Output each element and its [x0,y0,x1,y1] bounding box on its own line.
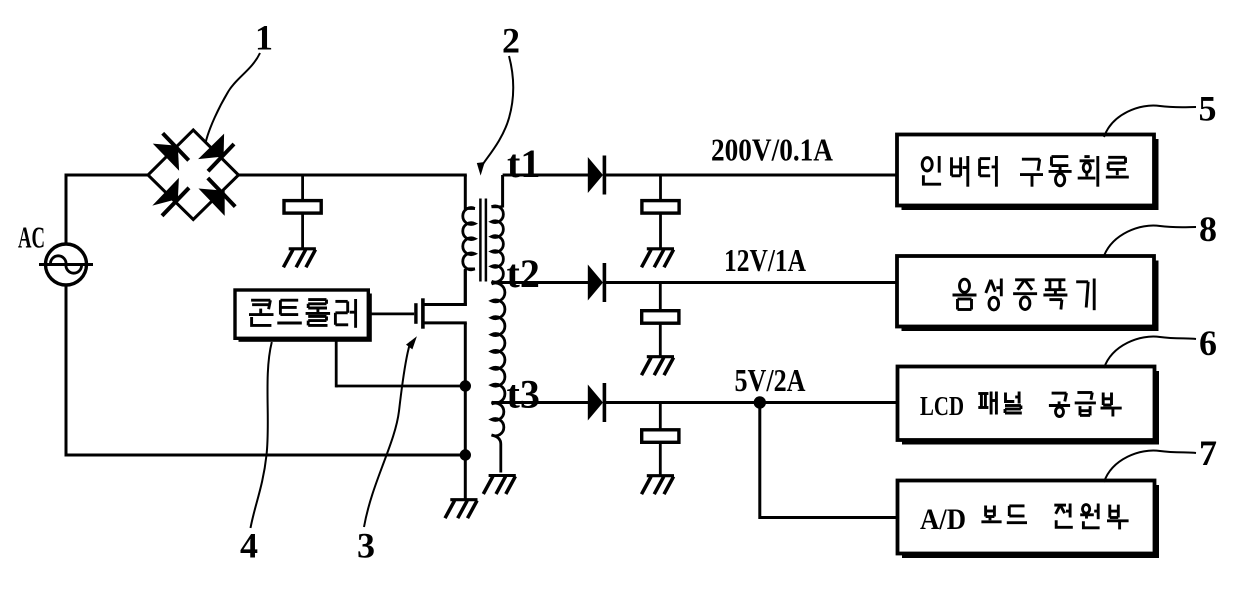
block 8 audio amplifier [897,256,1154,327]
leader line for label 8 [1104,226,1197,257]
wire AC top vertical [65,174,68,245]
transformer T1 secondary winding t1-t2 [492,206,504,282]
transistor Q1 drain lead [422,303,467,306]
transformer T1 secondary winding t2-t3 [492,283,505,403]
block 6 LCD panel supply [898,367,1155,441]
svg-text:2: 2 [502,21,520,61]
capacitor C2 [642,201,679,214]
node t1 label [507,141,540,186]
block 7 A/D board power supply [898,481,1155,554]
wire t1 to diode D5 [503,174,589,177]
wire capacitor C4 stub [659,403,662,431]
svg-text:5: 5 [1199,89,1217,129]
label 3 [357,526,375,566]
svg-text:AC: AC [18,220,45,255]
node t2 label [507,251,540,296]
wire D7 to box 6 [604,401,899,404]
capacitor C1 [284,201,321,214]
label 6 [1199,323,1217,363]
block 8 audio amplifier shadow [902,261,1159,332]
transistor Q1 gate bar [414,303,417,324]
transformer T1 primary top lead [465,175,475,210]
wire D6 to box 8 [604,281,898,284]
ground main [445,500,478,519]
transformer T1 secondary winding below t3 [492,403,504,436]
ground for C2 [642,249,675,267]
leader line for label 7 [1104,451,1196,482]
svg-text:A/D: A/D [920,503,966,536]
capacitor C3 [642,311,679,324]
net label 5V/2A [735,362,806,398]
junction source-return node [460,449,471,460]
svg-text:4: 4 [240,526,258,566]
bridge diode D1 top-left [153,133,189,171]
bridge rectifier BD1 outline [148,130,239,220]
wire C4 to ground [659,442,662,476]
block 5 inverter driving circuit shadow [902,139,1159,210]
wire capacitor C2 stub [659,175,662,202]
wire to box 7 [760,516,899,519]
transformer T1 primary winding [463,208,475,270]
svg-text:5V/2A: 5V/2A [735,362,806,398]
svg-text:t3: t3 [507,372,540,417]
net label 12V/1A [724,242,806,278]
wire t3 to diode D7 [492,401,589,404]
label 8 [1199,209,1217,249]
wire capacitor C1 stub [301,175,304,202]
node t3 label [507,372,540,417]
wire D5 to box 5 [604,174,898,177]
svg-text:3: 3 [357,526,375,566]
capacitor C4 [642,430,679,443]
bridge diode D3 bottom-left [152,178,189,216]
controller box U1 [235,290,368,338]
transformer T1 core [480,199,486,282]
diode D6 [588,263,605,302]
block 8 audio amplifier text [953,279,1095,311]
wire C3 to ground [659,323,662,357]
svg-text:8: 8 [1199,209,1217,249]
transformer T1 primary bottom lead [465,269,475,306]
label 5 [1199,89,1217,129]
ground for C4 [642,476,675,495]
label 2 [502,21,520,61]
svg-text:7: 7 [1199,433,1217,473]
wire AC bottom vertical [65,285,68,457]
block 7 A/D board power supply text [920,503,1129,536]
block 5 inverter driving circuit [897,135,1154,206]
wire controller to gate [368,312,414,315]
leader line for label 3 with arrowhead [364,336,417,527]
svg-text:12V/1A: 12V/1A [724,242,806,278]
block 6 LCD panel supply text [920,391,1122,421]
diode D7 [588,383,605,422]
leader line for label 2 with arrowhead [477,56,513,176]
ground for secondary winding [483,476,516,495]
AC source V1 [39,244,93,285]
junction source-feedback node [460,380,471,391]
transistor Q1 channel bar [421,298,425,328]
transformer T1 secondary bottom lead [492,435,501,473]
label 4 [240,526,258,566]
wire controller feedback down [335,338,338,387]
bridge diode D2 top-right [198,134,234,172]
transformer T1 secondary top lead t1 [492,175,503,208]
junction 5V branch node [754,396,766,408]
svg-text:200V/0.1A: 200V/0.1A [711,132,833,168]
wire bottom return rail [65,454,466,457]
wire C2 to ground [659,213,662,249]
controller box U1 text [249,299,356,328]
wire controller feedback to source node [336,385,465,388]
block 5 inverter driving circuit text [922,156,1129,187]
wire 5V down to A/D board [758,403,761,520]
wire capacitor C3 stub [659,283,662,312]
svg-text:LCD: LCD [920,391,964,421]
wire source down to ground [464,323,467,501]
block 6 LCD panel supply shadow [902,371,1159,445]
ground for C1 [283,249,316,267]
wire bridge to transformer [239,174,467,177]
bridge diode D4 bottom-right [199,178,236,216]
diode D5 [588,156,605,195]
leader line for label 4 [251,342,272,528]
wire top rail AC to bridge [65,174,150,177]
transistor Q1 source lead [422,321,467,324]
AC source label [18,220,45,255]
controller box U1 shadow [239,294,372,342]
net label 200V/0.1A [711,132,833,168]
svg-text:1: 1 [255,18,273,58]
wire drain to primary [464,270,467,305]
ground for C3 [642,357,675,376]
svg-text:t2: t2 [507,251,540,296]
label 7 [1199,433,1217,473]
svg-text:t1: t1 [507,141,540,186]
leader line for label 5 [1104,106,1196,137]
leader line for label 1 [206,53,261,143]
block 7 A/D board power supply shadow [902,485,1159,558]
leader line for label 6 [1104,337,1196,368]
svg-text:6: 6 [1199,323,1217,363]
wire C1 to ground [301,213,304,249]
wire t2 to diode D6 [492,281,589,284]
label 1 [255,18,273,58]
